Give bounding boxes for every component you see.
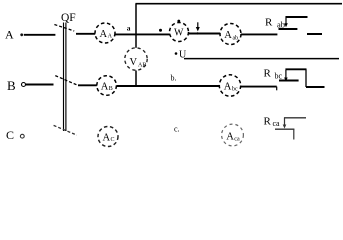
svg-text:ca: ca [273, 119, 281, 128]
svg-text:c.: c. [174, 125, 180, 134]
svg-text:A: A [101, 82, 109, 93]
svg-text:A: A [100, 29, 108, 40]
svg-text:B: B [109, 86, 113, 92]
svg-text:A: A [5, 28, 14, 42]
svg-text:bc: bc [232, 87, 238, 93]
svg-text:U: U [179, 50, 187, 61]
svg-text:R: R [264, 116, 272, 128]
svg-text:C: C [111, 137, 115, 143]
svg-text:ab: ab [277, 20, 285, 30]
svg-text:W: W [174, 27, 184, 38]
svg-text:A: A [224, 82, 232, 93]
svg-text:bc: bc [275, 72, 283, 81]
svg-text:AB: AB [138, 62, 146, 68]
svg-text:A: A [108, 33, 113, 39]
svg-text:B: B [7, 78, 16, 93]
svg-text:R: R [265, 17, 273, 29]
svg-text:a: a [127, 24, 131, 33]
svg-text:QF: QF [61, 12, 76, 24]
svg-text:b.: b. [171, 74, 177, 83]
svg-text:ca: ca [234, 136, 240, 142]
svg-text:C: C [6, 128, 14, 142]
svg-text:ab: ab [233, 35, 239, 41]
svg-text:A: A [226, 131, 234, 142]
svg-text:R: R [264, 68, 272, 80]
svg-text:A: A [103, 133, 111, 144]
svg-text:A: A [224, 30, 232, 41]
svg-text:V: V [130, 57, 138, 68]
